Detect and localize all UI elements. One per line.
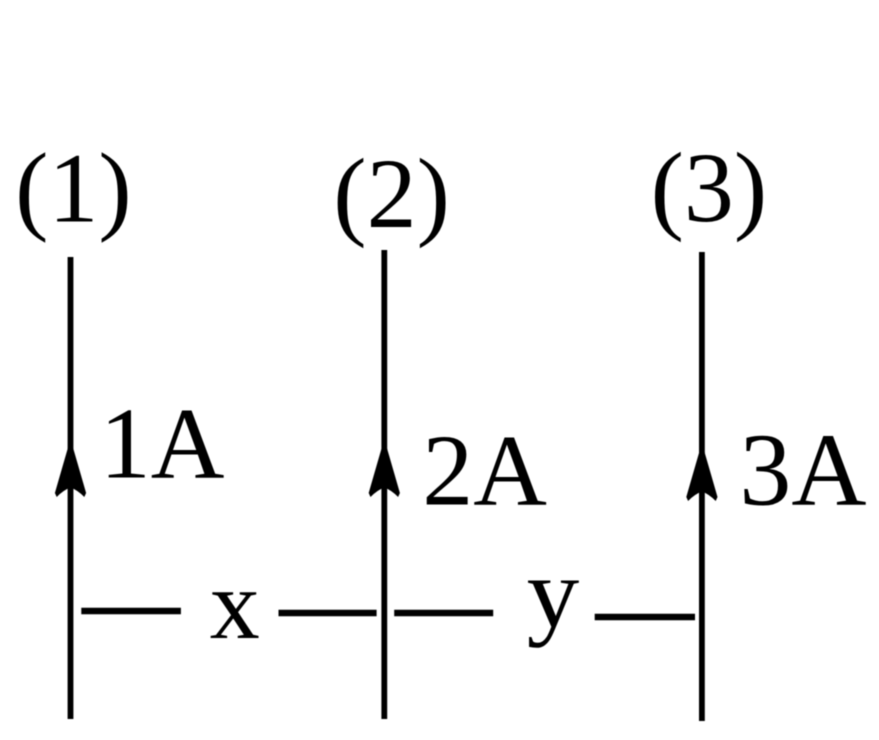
svg-text:(2): (2) bbox=[333, 138, 450, 249]
svg-text:y: y bbox=[527, 538, 580, 649]
svg-text:(3): (3) bbox=[651, 132, 768, 243]
svg-text:1A: 1A bbox=[100, 388, 225, 501]
svg-text:3A: 3A bbox=[739, 413, 866, 528]
svg-text:(1): (1) bbox=[15, 132, 132, 243]
svg-text:x: x bbox=[210, 549, 260, 660]
svg-text:2A: 2A bbox=[422, 414, 547, 527]
